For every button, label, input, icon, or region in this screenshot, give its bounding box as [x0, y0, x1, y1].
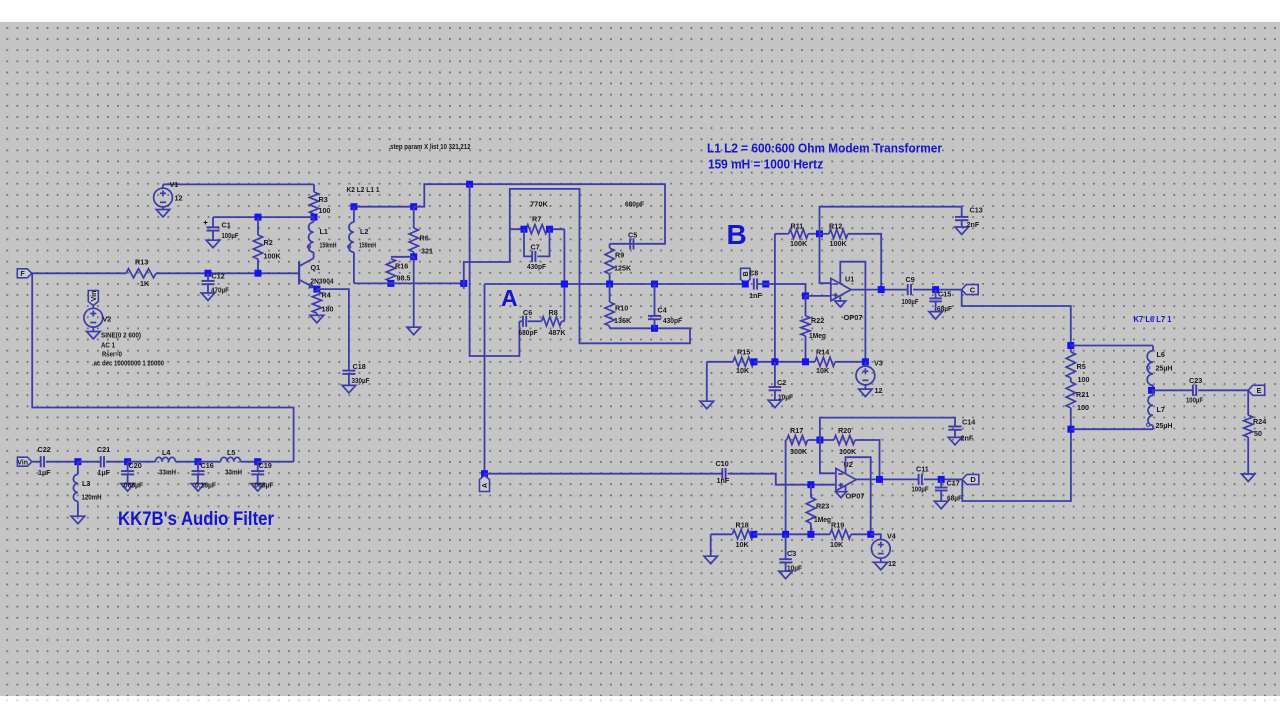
wire — [609, 284, 611, 302]
resistor R22 — [801, 316, 810, 336]
svg-text:OP07: OP07 — [846, 492, 865, 501]
capacitor C13 — [955, 217, 968, 220]
inductor L5 — [221, 457, 241, 461]
inductor L2 — [349, 222, 354, 252]
wire — [316, 313, 318, 315]
svg-text:100µF: 100µF — [1186, 396, 1203, 405]
svg-text:180: 180 — [322, 305, 334, 314]
junction — [410, 203, 417, 210]
capacitor C9 — [908, 284, 911, 295]
capacitor C12 — [202, 281, 215, 284]
svg-text:R3: R3 — [319, 195, 328, 204]
svg-text:C5: C5 — [628, 231, 637, 240]
wire — [754, 361, 815, 363]
resistor R3 — [309, 192, 318, 214]
ground — [955, 227, 969, 235]
svg-text:C13: C13 — [970, 206, 983, 215]
wire — [413, 257, 415, 327]
junction — [205, 270, 212, 277]
capacitor C11 — [919, 474, 922, 485]
svg-text:L2: L2 — [360, 227, 368, 236]
wire — [1152, 425, 1154, 429]
junction — [802, 292, 809, 299]
wire — [1152, 385, 1154, 390]
wire — [753, 533, 830, 535]
capacitor C18 — [342, 371, 355, 374]
junction — [606, 281, 613, 288]
wire — [820, 233, 829, 235]
svg-text:1Meg: 1Meg — [814, 515, 831, 524]
port D — [962, 474, 979, 484]
svg-text:100µF: 100µF — [912, 485, 929, 494]
wire U2 V- — [845, 486, 847, 492]
wire U1 V- — [839, 297, 841, 301]
phase dot — [307, 245, 310, 248]
resistor R15 — [733, 357, 754, 366]
junction — [782, 531, 789, 538]
wire top net to C5 — [414, 184, 665, 244]
svg-text:100µF: 100µF — [902, 297, 919, 306]
wire U2 output — [856, 478, 918, 480]
op-amp U2 — [836, 468, 856, 490]
wire — [128, 461, 156, 463]
wire — [92, 327, 94, 331]
svg-text:L5: L5 — [227, 448, 235, 457]
wire — [413, 207, 415, 228]
wire — [510, 228, 526, 230]
ground — [836, 492, 847, 498]
svg-text:10µF: 10µF — [778, 393, 794, 402]
ground — [874, 562, 888, 570]
resistor R20 — [834, 435, 855, 444]
svg-text:159mH: 159mH — [359, 241, 376, 250]
svg-text:10K: 10K — [830, 540, 844, 549]
svg-text:321: 321 — [421, 247, 433, 256]
svg-text:C10: C10 — [716, 459, 729, 468]
wire stub — [463, 283, 465, 288]
wire — [257, 217, 259, 235]
wire R20 to output — [855, 440, 880, 479]
wire — [257, 474, 259, 483]
ground — [201, 293, 215, 301]
wire R11 left down to rail — [774, 234, 776, 362]
capacitor C23 — [1193, 385, 1196, 396]
ground — [251, 484, 265, 492]
svg-text:R17: R17 — [790, 426, 803, 435]
ground — [156, 210, 170, 218]
svg-text:C18: C18 — [353, 362, 366, 371]
svg-text:.ac dec 10000000 1 20000: .ac dec 10000000 1 20000 — [92, 359, 164, 368]
svg-text:C7: C7 — [531, 243, 540, 252]
port Vin — [17, 457, 32, 466]
capacitor C17 — [935, 488, 948, 491]
faint residual dot row below schematic area — [0, 700, 1280, 702]
svg-text:C6: C6 — [523, 308, 532, 317]
wire — [785, 563, 787, 572]
svg-text:F: F — [20, 271, 25, 278]
voltage source V2 — [84, 308, 103, 327]
wire C10 to inverting input — [728, 474, 836, 485]
wire down to C6 — [470, 184, 520, 356]
svg-text:98.5: 98.5 — [397, 274, 411, 283]
svg-text:100K: 100K — [830, 239, 848, 248]
wire A net to C10 — [485, 473, 723, 475]
resistor R2 — [253, 235, 262, 259]
resistor R5 — [1066, 352, 1075, 378]
ground — [342, 385, 356, 393]
ground — [934, 501, 948, 509]
svg-text:L3: L3 — [82, 479, 90, 488]
wire — [610, 243, 636, 245]
wire — [810, 523, 812, 534]
capacitor C7 — [532, 251, 535, 262]
wire — [810, 485, 812, 498]
svg-text:R11: R11 — [791, 222, 804, 231]
wire — [197, 462, 199, 471]
svg-text:0.18µF: 0.18µF — [195, 481, 217, 490]
svg-text:680pF: 680pF — [625, 200, 645, 209]
wire — [609, 326, 611, 328]
transistor Q1 — [299, 258, 317, 289]
wire — [785, 534, 787, 559]
svg-text:L1 L2 = 600:600 Ohm Modem Tran: L1 L2 = 600:600 Ohm Modem Transformer — [707, 141, 942, 156]
wire — [162, 184, 164, 188]
junction — [561, 281, 568, 288]
svg-text:C12: C12 — [212, 272, 225, 281]
wire — [940, 479, 942, 487]
wire — [806, 295, 831, 297]
resistor R7 — [526, 225, 548, 234]
wire feedback loop R7-R10 — [510, 189, 690, 343]
svg-text:470µF: 470µF — [211, 286, 230, 295]
junction — [255, 214, 262, 221]
capacitor C14 — [948, 427, 961, 430]
svg-text:D: D — [970, 475, 976, 484]
svg-text:R8: R8 — [549, 308, 558, 317]
wire R17 left down to rail — [785, 440, 787, 534]
wire — [562, 320, 565, 322]
wire — [1070, 346, 1072, 352]
svg-text:C22: C22 — [38, 445, 51, 454]
junction — [938, 476, 945, 483]
wire C8 to inverting input — [757, 284, 805, 296]
port E — [1248, 385, 1265, 395]
svg-text:1nF: 1nF — [749, 291, 762, 300]
svg-text:330µF: 330µF — [352, 376, 371, 385]
wire — [46, 461, 78, 463]
wire R12 to output — [848, 234, 881, 290]
wire — [851, 533, 871, 535]
wire — [711, 533, 733, 535]
wire to V4 — [871, 534, 881, 539]
svg-text:159 mH = 1000 Hertz: 159 mH = 1000 Hertz — [708, 157, 823, 172]
wire to L6 — [1071, 345, 1153, 347]
resistor R12 — [829, 229, 848, 238]
wire — [775, 233, 789, 235]
junction — [862, 358, 869, 365]
wire — [313, 217, 315, 222]
wire — [864, 362, 866, 366]
junction — [742, 281, 749, 288]
wire — [805, 296, 807, 316]
capacitor C15 — [929, 298, 942, 301]
svg-text:R21: R21 — [1076, 390, 1089, 399]
resistor R18 — [732, 530, 753, 539]
svg-text:120mH: 120mH — [82, 493, 102, 502]
svg-text:KK7B's Audio Filter: KK7B's Audio Filter — [118, 509, 275, 530]
voltage source V3 — [856, 366, 875, 385]
svg-text:25µH: 25µH — [1156, 364, 1173, 373]
wire — [175, 461, 198, 463]
svg-text:V4: V4 — [887, 532, 896, 541]
svg-text:A: A — [482, 483, 489, 488]
svg-text:1nF: 1nF — [717, 476, 730, 485]
svg-text:L6: L6 — [1157, 350, 1165, 359]
ground — [859, 389, 873, 397]
svg-text:770K: 770K — [530, 200, 549, 209]
svg-text:C11: C11 — [916, 465, 929, 474]
wire — [835, 361, 865, 363]
svg-text:33mH: 33mH — [225, 468, 242, 477]
wire — [935, 301, 937, 311]
net flag B — [741, 268, 751, 283]
svg-text:R18: R18 — [736, 521, 749, 530]
svg-text:SINE(0 2 600): SINE(0 2 600) — [101, 331, 142, 340]
wire — [1152, 346, 1154, 351]
wire — [805, 336, 807, 362]
svg-text:C9: C9 — [906, 275, 915, 284]
junction — [1148, 387, 1155, 394]
junction — [255, 270, 262, 277]
wire — [880, 558, 882, 562]
ground — [835, 301, 846, 307]
svg-text:K7 L6 L7 1: K7 L6 L7 1 — [1134, 314, 1172, 324]
junction — [311, 214, 318, 221]
wire A net down — [484, 284, 486, 474]
wire — [106, 461, 128, 463]
ground — [191, 484, 205, 492]
wire — [258, 461, 294, 463]
ground — [71, 516, 85, 524]
wire — [707, 361, 733, 363]
wire — [127, 462, 129, 471]
svg-text:100K: 100K — [790, 239, 808, 248]
wire — [198, 461, 221, 463]
wire — [316, 289, 318, 291]
wire — [78, 461, 100, 463]
ground — [700, 401, 714, 409]
capacitor C10 — [722, 468, 725, 479]
resistor R8 — [542, 317, 562, 326]
svg-text:100µF: 100µF — [222, 231, 239, 240]
svg-text:159mH: 159mH — [320, 241, 337, 250]
svg-text:R5: R5 — [1077, 362, 1086, 371]
ground — [704, 556, 718, 564]
wire U1 V+ to V3 — [840, 262, 865, 362]
resistor R24 — [1244, 415, 1253, 437]
wire — [353, 207, 355, 223]
svg-text:680pF: 680pF — [519, 328, 539, 337]
svg-text:V2: V2 — [103, 315, 112, 324]
wire jog to R7 left — [464, 229, 510, 283]
junction — [932, 286, 939, 293]
svg-text:V1: V1 — [170, 180, 179, 189]
junction — [816, 437, 823, 444]
capacitor C4 — [648, 316, 661, 319]
svg-text:R2: R2 — [264, 238, 273, 247]
svg-text:C15: C15 — [938, 290, 951, 299]
svg-text:12: 12 — [888, 559, 896, 568]
svg-text:R13: R13 — [135, 258, 148, 267]
junction — [195, 458, 202, 465]
svg-text:68µF: 68µF — [937, 304, 953, 313]
wire — [212, 231, 214, 241]
wire — [77, 462, 79, 475]
wire F down and across to filter output — [32, 273, 294, 461]
resistor R17 — [787, 435, 808, 444]
wire R3 to C1 — [213, 216, 314, 218]
ground — [948, 437, 962, 445]
wire — [774, 390, 776, 400]
svg-text:100: 100 — [1077, 403, 1089, 412]
wire F to R13 — [32, 272, 126, 274]
svg-text:U1: U1 — [845, 275, 854, 284]
wire — [609, 244, 611, 248]
svg-text:2nF: 2nF — [961, 434, 974, 443]
inductor L4 — [156, 457, 176, 461]
svg-text:L4: L4 — [162, 448, 170, 457]
junction — [481, 470, 488, 477]
svg-text:C: C — [970, 285, 976, 294]
svg-text:C3: C3 — [787, 549, 796, 558]
svg-text:.068µF: .068µF — [253, 481, 275, 490]
junction — [561, 281, 568, 288]
junction — [460, 280, 467, 287]
resistor R11 — [789, 229, 808, 238]
wire — [162, 207, 164, 210]
wire secondary rail — [354, 282, 464, 284]
junction — [1067, 426, 1074, 433]
junction — [876, 476, 883, 483]
svg-text:OP07: OP07 — [844, 313, 863, 322]
wire — [207, 284, 209, 293]
wire to C13 — [820, 207, 962, 234]
capacitor C5 — [630, 238, 633, 249]
wire — [935, 290, 937, 299]
wire — [1247, 390, 1249, 415]
svg-text:136K: 136K — [614, 316, 632, 325]
capacitor C19 — [251, 471, 264, 474]
plus mark C1 — [204, 221, 208, 225]
junction — [387, 280, 394, 287]
port C — [962, 285, 979, 295]
op-amp U1 — [831, 278, 851, 300]
wire — [1070, 378, 1072, 382]
wire — [391, 256, 414, 258]
wire C7 right — [537, 229, 549, 256]
ground — [121, 484, 135, 492]
wire — [654, 319, 656, 328]
wire — [197, 474, 199, 483]
wire — [609, 274, 611, 284]
wire — [1070, 408, 1072, 429]
wire — [257, 462, 259, 471]
junction — [816, 230, 823, 237]
junction — [867, 531, 874, 538]
junction — [521, 226, 528, 233]
resistor R14 — [815, 357, 835, 366]
svg-text:R4: R4 — [322, 291, 331, 300]
phase dot — [1147, 423, 1150, 426]
resistor R16 — [386, 259, 395, 282]
svg-text:25µH: 25µH — [1156, 421, 1173, 430]
junction — [750, 531, 757, 538]
capacitor C16 — [192, 471, 205, 474]
wire emitter to C18 — [317, 289, 349, 371]
wire R8 up to R7 right — [563, 229, 565, 321]
wire — [528, 320, 542, 322]
svg-text:C14: C14 — [962, 418, 975, 427]
wire L2 to R6 — [354, 206, 414, 208]
voltage source V4 — [871, 539, 890, 558]
wire — [313, 184, 315, 192]
svg-text:12: 12 — [175, 194, 183, 203]
svg-text:L1: L1 — [320, 227, 328, 236]
capacitor C8 — [754, 278, 757, 289]
capacitor C21 — [101, 456, 104, 467]
svg-text:.step param X list 10 321,212: .step param X list 10 321,212 — [389, 142, 471, 151]
junction — [802, 358, 809, 365]
svg-text:Vin: Vin — [91, 291, 98, 302]
svg-text:R6: R6 — [420, 234, 429, 243]
svg-text:68µF: 68µF — [947, 494, 963, 503]
wire — [954, 430, 956, 438]
svg-text:2nF: 2nF — [967, 220, 980, 229]
ground — [407, 327, 421, 335]
wire — [1071, 428, 1153, 430]
junction — [771, 358, 778, 365]
wire U2 V+ to V4 — [846, 457, 871, 534]
wire — [519, 320, 522, 322]
capacitor C2 — [769, 387, 782, 390]
wire — [913, 289, 962, 291]
svg-text:100: 100 — [319, 206, 331, 215]
wire — [864, 385, 866, 389]
wire — [257, 259, 259, 273]
wire — [77, 501, 79, 516]
junction — [807, 481, 814, 488]
svg-text:.068µF: .068µF — [122, 481, 144, 490]
resistor R21 — [1066, 382, 1075, 408]
svg-text:100: 100 — [1078, 375, 1090, 384]
ground — [310, 315, 324, 323]
wire — [313, 252, 315, 258]
svg-text:2N3904: 2N3904 — [311, 277, 334, 286]
svg-text:A: A — [501, 285, 518, 311]
phase dot — [348, 245, 351, 248]
wire D net to attenuator — [962, 429, 1071, 501]
wire — [940, 491, 942, 502]
wire — [786, 439, 787, 441]
svg-text:C21: C21 — [97, 445, 110, 454]
resistor R4 — [312, 291, 321, 313]
inductor L1 — [309, 222, 314, 252]
wire — [313, 214, 315, 217]
svg-text:487K: 487K — [549, 328, 567, 337]
wire to noninverting input — [820, 234, 831, 283]
wire — [808, 233, 819, 235]
svg-text:10K: 10K — [736, 540, 750, 549]
